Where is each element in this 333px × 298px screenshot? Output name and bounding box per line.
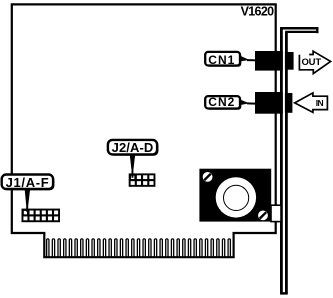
component trimmer: [199, 169, 271, 222]
tab to bracket: [271, 205, 281, 221]
svg-text:CN1: CN1: [208, 53, 235, 67]
label J1/A-F: [2, 175, 55, 212]
jumper block J1: [22, 209, 61, 223]
svg-text:J1/A-F: J1/A-F: [6, 175, 50, 190]
OUT arrow: [299, 51, 330, 73]
bracket: [280, 27, 318, 293]
connector CN2: [255, 92, 292, 114]
IN arrow: [295, 93, 328, 113]
svg-text:IN: IN: [316, 98, 324, 108]
edge connector teeth: [47, 239, 231, 257]
connector CN1: [255, 51, 294, 71]
label CN1: [205, 52, 255, 67]
card outline: [12, 4, 276, 257]
screw top-left: [203, 172, 213, 182]
jumper block J2: [129, 173, 156, 186]
label J2/A-D: [108, 140, 158, 178]
svg-text:OUT: OUT: [301, 57, 321, 68]
screw bottom-right: [258, 211, 268, 221]
svg-text:CN2: CN2: [208, 95, 235, 109]
label CN2: [205, 95, 256, 110]
svg-text:V1620: V1620: [241, 4, 274, 18]
svg-text:J2/A-D: J2/A-D: [112, 140, 154, 155]
